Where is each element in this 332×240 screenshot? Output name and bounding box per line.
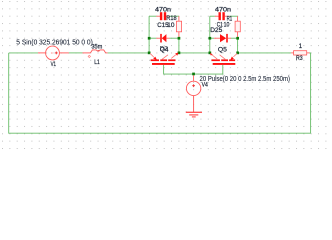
resistor R3 — [291, 52, 294, 54]
svg-text:470n: 470n — [215, 8, 231, 14]
thyristor Q4 (SCR pair, left arrow at bottom, right arrow at top) — [150, 53, 179, 65]
svg-text:10: 10 — [167, 23, 175, 29]
capacitor C15 — [156, 15, 160, 17]
svg-text:Q5: Q5 — [218, 48, 228, 54]
wire: left rail + bottom rail + right rail (big loop) — [9, 53, 311, 133]
svg-text:R1: R1 — [227, 16, 233, 22]
wire: V1 to L1 — [69, 52, 83, 54]
wire: block1 cap row right — [169, 15, 179, 17]
diode D25 (points right) — [214, 37, 220, 39]
thyristor Q5 (SCR pair mirrored, left arrow at top, right arrow at bottom) — [210, 53, 237, 65]
node: L1 mid dot — [98, 50, 99, 51]
wire: block2 to R3 — [238, 52, 291, 54]
svg-text:20 Pulse(0 20 0 2.5m 2.5m 250m: 20 Pulse(0 20 0 2.5m 2.5m 250m) — [200, 76, 291, 83]
svg-text:470n: 470n — [155, 8, 171, 14]
ground — [186, 96, 202, 117]
svg-text:D25: D25 — [210, 28, 223, 34]
resistor R18 — [178, 16, 180, 21]
wire: block2 diode row — [210, 37, 214, 39]
wire: block2 cap row left — [210, 15, 215, 17]
svg-text:5 Sin(0 325.26901 50 0 0): 5 Sin(0 325.26901 50 0 0) — [16, 39, 93, 46]
wire: block1 to block2 (main row) — [149, 52, 210, 54]
svg-text:V4: V4 — [202, 83, 209, 89]
wire: block1 right rail between rows — [178, 37, 180, 53]
node: junction dots — [148, 37, 239, 75]
wire: top-left segment V1 left — [9, 52, 38, 54]
wire: block2 left rail vertical — [209, 16, 211, 53]
voltage source V4 (pulse) — [193, 75, 195, 81]
wire: block1 left rail vertical — [148, 16, 150, 53]
capacitor C1 — [215, 15, 219, 17]
wire: block2 cap row right — [229, 15, 237, 17]
wire: L1 to block1 — [108, 52, 150, 54]
svg-text:10: 10 — [224, 23, 230, 29]
diode D24 (points left) — [156, 37, 160, 39]
svg-text:35m: 35m — [91, 44, 102, 51]
voltage source V1 (sine) — [38, 46, 69, 60]
resistor R1 — [237, 16, 239, 21]
svg-text:V1: V1 — [51, 62, 57, 68]
svg-text:L1: L1 — [94, 60, 100, 66]
svg-text:R18: R18 — [166, 16, 177, 22]
wire: gate bus from symbol1 and symbol2 down to V4 node — [164, 65, 223, 74]
svg-text:D2: D2 — [160, 46, 169, 52]
svg-text:R3: R3 — [296, 56, 303, 62]
inductor L1 — [83, 50, 108, 53]
wire: block2 right rail between rows — [237, 37, 239, 53]
wire: block1 cap row left — [149, 15, 156, 17]
L1 anchor diamond — [88, 55, 90, 57]
wire: block1 diode row — [149, 37, 156, 39]
